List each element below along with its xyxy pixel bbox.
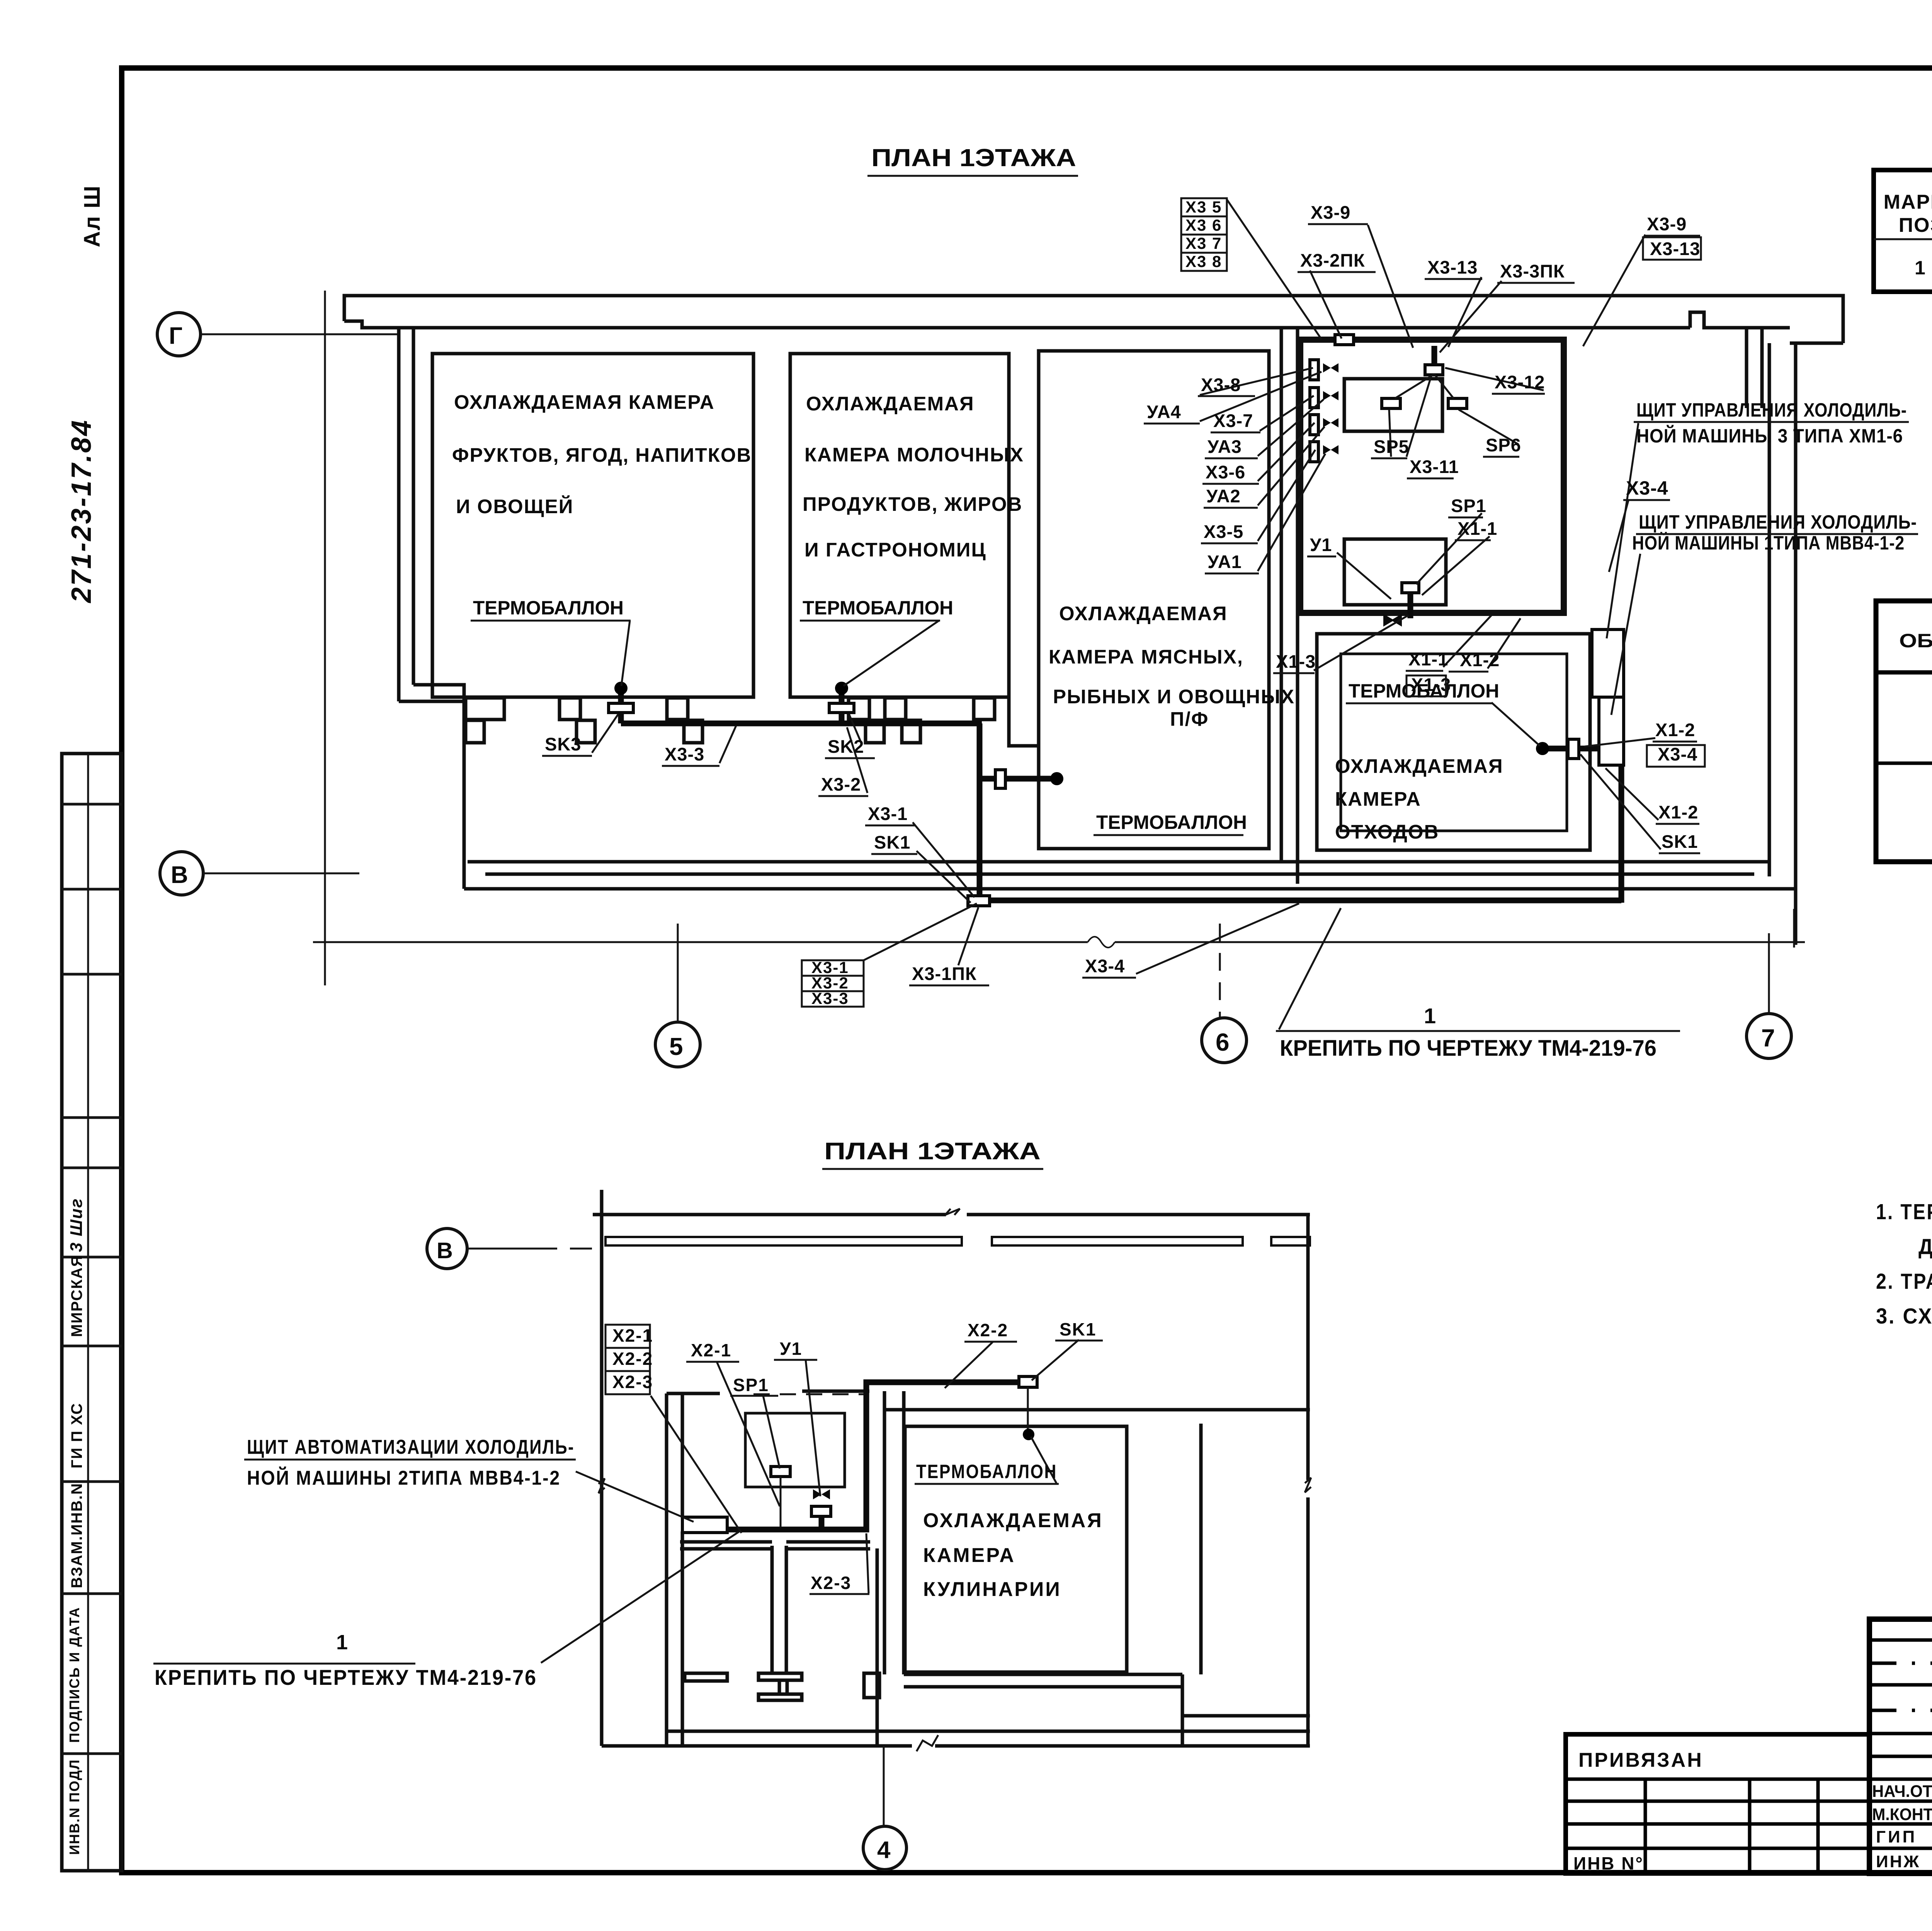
svg-text:1: 1 bbox=[1915, 257, 1926, 279]
svg-text:1. ТЕРМОБАЛЛОНЫ ПРИБОРОВ ПО: 1. ТЕРМОБАЛЛОНЫ ПРИБОРОВ ПОЗ. SK1-SK3 УС… bbox=[1876, 1199, 1932, 1224]
svg-text:Х3-6: Х3-6 bbox=[1206, 462, 1245, 482]
svg-text:Х1-1: Х1-1 bbox=[1458, 518, 1497, 539]
svg-text:Х3-3: Х3-3 bbox=[811, 989, 849, 1007]
svg-text:КРЕПИТЬ ПО ЧЕРТЕЖУ ТМ4-219-76: КРЕПИТЬ ПО ЧЕРТЕЖУ ТМ4-219-76 bbox=[1280, 1036, 1656, 1061]
svg-text:НОЙ МАШИНЫ 2ТИПА МВВ4-1-2: НОЙ МАШИНЫ 2ТИПА МВВ4-1-2 bbox=[247, 1467, 561, 1489]
svg-text:SK1: SK1 bbox=[1060, 1319, 1096, 1339]
svg-text:Х2-3: Х2-3 bbox=[811, 1573, 851, 1593]
svg-text:ИНВ N°: ИНВ N° bbox=[1573, 1853, 1644, 1873]
svg-text:ОТХОДОВ: ОТХОДОВ bbox=[1335, 821, 1439, 843]
svg-text:Х3-3ПК: Х3-3ПК bbox=[1500, 261, 1565, 281]
svg-text:ОБОЗНАЧЕНИЕ: ОБОЗНАЧЕНИЕ bbox=[1899, 630, 1932, 652]
svg-text:7: 7 bbox=[1761, 1024, 1775, 1052]
svg-text:ОХЛАЖДАЕМАЯ КАМЕРА: ОХЛАЖДАЕМАЯ КАМЕРА bbox=[454, 391, 715, 413]
svg-text:Х3-3: Х3-3 bbox=[665, 744, 704, 764]
svg-text:ОХЛАЖДАЕМАЯ: ОХЛАЖДАЕМАЯ bbox=[1335, 755, 1503, 777]
svg-text:3. СХЕМА СОЕДИНЕНИЙ ВНЕШНИХ: 3. СХЕМА СОЕДИНЕНИЙ ВНЕШНИХ ПРОВОДОК ДАН… bbox=[1876, 1303, 1932, 1329]
svg-text:ВЗАМ.ИНВ.N: ВЗАМ.ИНВ.N bbox=[68, 1483, 85, 1588]
svg-text:Х3-1: Х3-1 bbox=[868, 803, 908, 824]
svg-text:Ал Ш: Ал Ш bbox=[80, 185, 105, 247]
svg-text:КАМЕРА МОЛОЧНЫХ: КАМЕРА МОЛОЧНЫХ bbox=[804, 444, 1024, 466]
svg-text:Х3-4: Х3-4 bbox=[1085, 956, 1125, 976]
svg-text:МИРСКАЯ: МИРСКАЯ bbox=[68, 1255, 85, 1337]
svg-text:Х1-2: Х1-2 bbox=[1658, 802, 1698, 822]
svg-text:М.КОНТР: М.КОНТР bbox=[1872, 1805, 1932, 1824]
svg-text:SP1: SP1 bbox=[1451, 495, 1486, 516]
svg-text:Х3-4: Х3-4 bbox=[1658, 744, 1697, 764]
svg-text:У1: У1 bbox=[1310, 534, 1332, 555]
svg-text:1: 1 bbox=[336, 1631, 349, 1654]
svg-text:Х2-2: Х2-2 bbox=[968, 1320, 1008, 1340]
svg-text:Х3 8: Х3 8 bbox=[1185, 252, 1222, 271]
svg-text:ГИ П ХС: ГИ П ХС bbox=[68, 1403, 85, 1468]
svg-text:2. ТРАССЫ ВЕСТИ ПО СТЕНЕ: 2. ТРАССЫ ВЕСТИ ПО СТЕНЕ НА ВЫСОТЕ 2.5М … bbox=[1876, 1269, 1932, 1294]
svg-text:И ОВОЩЕЙ: И ОВОЩЕЙ bbox=[456, 495, 573, 517]
svg-text:Х3-5: Х3-5 bbox=[1204, 521, 1243, 542]
svg-text:КРЕПИТЬ ПО ЧЕРТЕЖУ ТМ4-219-76: КРЕПИТЬ ПО ЧЕРТЕЖУ ТМ4-219-76 bbox=[155, 1665, 537, 1689]
svg-text:ТЕРМОБАЛЛОН: ТЕРМОБАЛЛОН bbox=[1096, 812, 1247, 833]
svg-text:Х3-8: Х3-8 bbox=[1201, 374, 1241, 395]
svg-text:ПРИВЯЗАН: ПРИВЯЗАН bbox=[1578, 1749, 1703, 1771]
svg-text:НОЙ МАШИНЫ 3 ТИПА ХМ1-6: НОЙ МАШИНЫ 3 ТИПА ХМ1-6 bbox=[1636, 425, 1903, 447]
svg-text:5: 5 bbox=[669, 1033, 683, 1060]
svg-text:SP1: SP1 bbox=[733, 1375, 769, 1395]
svg-text:ТЕРМОБАЛЛОН: ТЕРМОБАЛЛОН bbox=[473, 597, 624, 619]
svg-text:УА3: УА3 bbox=[1207, 436, 1242, 457]
svg-text:SP6: SP6 bbox=[1486, 435, 1521, 455]
svg-text:Х3-9: Х3-9 bbox=[1647, 214, 1687, 234]
svg-text:Х3-9: Х3-9 bbox=[1311, 202, 1350, 223]
svg-text:Х3-2ПК: Х3-2ПК bbox=[1300, 250, 1365, 271]
svg-text:Х2-2: Х2-2 bbox=[612, 1349, 653, 1369]
svg-text:4: 4 bbox=[877, 1837, 891, 1863]
svg-text:КАМЕРА: КАМЕРА bbox=[1335, 788, 1421, 810]
svg-text:6: 6 bbox=[1216, 1028, 1230, 1056]
svg-text:НАЧ.ОТД: НАЧ.ОТД bbox=[1872, 1782, 1932, 1801]
svg-text:SK3: SK3 bbox=[545, 734, 581, 754]
svg-text:Х3-13: Х3-13 bbox=[1427, 257, 1478, 277]
svg-text:УА2: УА2 bbox=[1206, 486, 1241, 506]
svg-text:Х2-3: Х2-3 bbox=[612, 1372, 653, 1392]
svg-text:ЩИТ АВТОМАТИЗАЦИИ ХОЛОДИЛЬ-: ЩИТ АВТОМАТИЗАЦИИ ХОЛОДИЛЬ- bbox=[247, 1436, 575, 1458]
svg-text:ТЕРМОБАЛЛОН: ТЕРМОБАЛЛОН bbox=[803, 597, 953, 619]
svg-text:В: В bbox=[437, 1238, 453, 1263]
svg-text:ПОДПИСЬ И ДАТА: ПОДПИСЬ И ДАТА bbox=[66, 1607, 82, 1743]
svg-text:УА4: УА4 bbox=[1147, 402, 1181, 422]
svg-text:КУЛИНАРИИ: КУЛИНАРИИ bbox=[923, 1578, 1061, 1601]
svg-text:SP5: SP5 bbox=[1374, 436, 1409, 457]
svg-text:РЫБНЫХ И ОВОЩНЫХ: РЫБНЫХ И ОВОЩНЫХ bbox=[1053, 686, 1295, 708]
svg-text:Х3-7: Х3-7 bbox=[1213, 410, 1253, 431]
svg-text:П/Ф: П/Ф bbox=[1170, 708, 1209, 730]
svg-text:Х1-3: Х1-3 bbox=[1276, 651, 1316, 672]
svg-text:ПЛАН 1ЭТАЖА: ПЛАН 1ЭТАЖА bbox=[871, 144, 1076, 172]
svg-text:ФРУКТОВ, ЯГОД, НАПИТКОВ: ФРУКТОВ, ЯГОД, НАПИТКОВ bbox=[452, 444, 752, 466]
svg-text:Х3-11: Х3-11 bbox=[1410, 456, 1459, 477]
svg-text:Х3-13: Х3-13 bbox=[1650, 238, 1700, 259]
svg-text:НОЙ МАШИНЫ 1ТИПА МВВ4-1-2: НОЙ МАШИНЫ 1ТИПА МВВ4-1-2 bbox=[1632, 532, 1905, 554]
svg-text:У1: У1 bbox=[780, 1339, 802, 1359]
svg-text:Х3-2: Х3-2 bbox=[821, 774, 861, 795]
svg-text:ЩИТ УПРАВЛЕНИЯ ХОЛОДИЛЬ-: ЩИТ УПРАВЛЕНИЯ ХОЛОДИЛЬ- bbox=[1636, 399, 1907, 421]
svg-text:ЩИТ УПРАВЛЕНИЯ ХОЛОДИЛЬ-: ЩИТ УПРАВЛЕНИЯ ХОЛОДИЛЬ- bbox=[1639, 511, 1917, 533]
svg-text:SK2: SK2 bbox=[828, 736, 864, 757]
svg-text:КАМЕРА: КАМЕРА bbox=[923, 1544, 1015, 1567]
svg-text:ОХЛАЖДАЕМАЯ: ОХЛАЖДАЕМАЯ bbox=[1059, 602, 1228, 624]
svg-text:ОХЛАЖДАЕМАЯ: ОХЛАЖДАЕМАЯ bbox=[806, 393, 975, 415]
svg-text:ОХЛАЖДАЕМАЯ: ОХЛАЖДАЕМАЯ bbox=[923, 1509, 1103, 1532]
svg-text:ТЕРМОБАЛЛОН: ТЕРМОБАЛЛОН bbox=[916, 1461, 1057, 1482]
svg-text:1: 1 bbox=[1424, 1004, 1436, 1028]
svg-text:Х1-1: Х1-1 bbox=[1408, 649, 1448, 669]
svg-text:Х1-2: Х1-2 bbox=[1460, 650, 1500, 670]
svg-text:3 Шиг: 3 Шиг bbox=[67, 1198, 86, 1252]
svg-text:Х3 5: Х3 5 bbox=[1185, 198, 1222, 216]
svg-text:Х3-4: Х3-4 bbox=[1626, 477, 1668, 499]
svg-text:И ГАСТРОНОМИЦ: И ГАСТРОНОМИЦ bbox=[804, 539, 986, 561]
svg-text:SK1: SK1 bbox=[1662, 831, 1698, 852]
svg-text:КАМЕРА МЯСНЫХ,: КАМЕРА МЯСНЫХ, bbox=[1049, 646, 1243, 668]
svg-text:ИНВ.N ПОДЛ: ИНВ.N ПОДЛ bbox=[66, 1759, 82, 1855]
svg-text:Х3 7: Х3 7 bbox=[1185, 234, 1222, 252]
svg-text:Х1-2: Х1-2 bbox=[1655, 720, 1695, 740]
svg-text:ПОЗ: ПОЗ bbox=[1899, 214, 1932, 236]
svg-text:ПРОДУКТОВ, ЖИРОВ: ПРОДУКТОВ, ЖИРОВ bbox=[803, 493, 1022, 515]
svg-text:МАРКА: МАРКА bbox=[1884, 191, 1932, 213]
svg-text:Х2-1: Х2-1 bbox=[612, 1325, 653, 1346]
svg-text:ИНЖ: ИНЖ bbox=[1876, 1852, 1920, 1871]
svg-text:SK1: SK1 bbox=[874, 832, 910, 852]
svg-text:УА1: УА1 bbox=[1207, 551, 1242, 572]
svg-text:271-23-17.84: 271-23-17.84 bbox=[66, 419, 97, 604]
svg-text:ДАЕМЫХ КАМЕРАХ НАД ДВЕРЬЮ.: ДАЕМЫХ КАМЕРАХ НАД ДВЕРЬЮ. bbox=[1918, 1234, 1932, 1259]
svg-text:Х3-1ПК: Х3-1ПК bbox=[912, 963, 977, 984]
svg-text:Х2-1: Х2-1 bbox=[691, 1340, 731, 1360]
svg-text:ГИП: ГИП bbox=[1876, 1827, 1917, 1846]
svg-text:В: В bbox=[171, 862, 188, 888]
svg-text:Х3-12: Х3-12 bbox=[1495, 372, 1545, 392]
svg-text:ПЛАН 1ЭТАЖА: ПЛАН 1ЭТАЖА bbox=[824, 1138, 1041, 1165]
svg-text:Г: Г bbox=[169, 323, 182, 349]
svg-text:Х3 6: Х3 6 bbox=[1185, 216, 1222, 234]
